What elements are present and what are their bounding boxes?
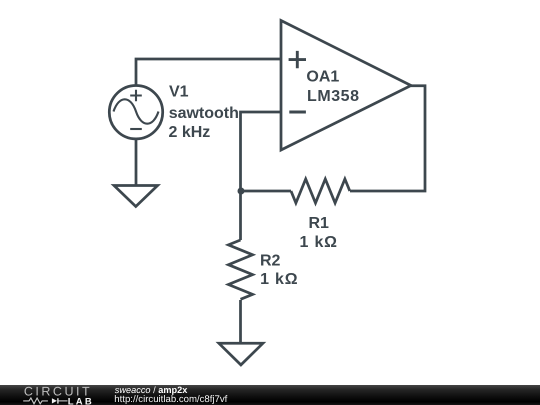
op-amp OA1 — [281, 21, 411, 151]
ground — [114, 186, 158, 207]
svg-text:LM358: LM358 — [307, 88, 360, 105]
wire — [135, 139, 138, 186]
resistor R1 — [291, 179, 350, 203]
wire — [241, 112, 282, 191]
svg-text:OA1: OA1 — [306, 69, 339, 86]
svg-text:R2: R2 — [260, 253, 281, 270]
svg-text:R1: R1 — [309, 215, 330, 232]
wire — [239, 190, 291, 193]
voltage source V1 — [109, 86, 162, 139]
ground — [219, 343, 263, 365]
svg-text:V1: V1 — [169, 83, 189, 100]
svg-text:1 kΩ: 1 kΩ — [260, 271, 298, 288]
footer bar — [0, 385, 540, 405]
wire — [136, 59, 281, 86]
wire — [239, 191, 242, 240]
logo diode — [52, 398, 57, 403]
logo resistor zigzag — [23, 398, 48, 404]
svg-text:http://circuitlab.com/c8fj7vf: http://circuitlab.com/c8fj7vf — [114, 394, 227, 405]
resistor R2 — [228, 240, 252, 299]
svg-text:2 kHz: 2 kHz — [169, 124, 211, 141]
svg-text:1 kΩ: 1 kΩ — [300, 234, 338, 251]
wire — [350, 86, 425, 191]
node junction — [238, 188, 245, 195]
wire — [239, 300, 242, 343]
svg-text:sawtooth: sawtooth — [169, 105, 239, 122]
svg-text:LAB: LAB — [68, 396, 94, 405]
